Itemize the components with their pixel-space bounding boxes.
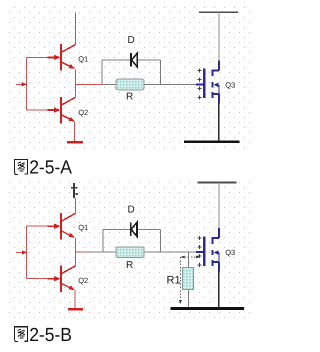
svg-text:R: R [126,260,133,271]
svg-text:Q1: Q1 [78,54,88,63]
svg-text:R1: R1 [167,275,181,287]
svg-text:Q2: Q2 [78,276,88,285]
svg-text:Q2: Q2 [78,108,88,117]
svg-text:Q3: Q3 [225,248,235,257]
svg-text:2-5-B: 2-5-B [29,325,72,346]
svg-text:D: D [128,35,135,46]
svg-text:2-5-A: 2-5-A [29,158,72,179]
svg-text:D: D [128,204,135,215]
svg-text:Q3: Q3 [225,81,235,90]
svg-text:Q1: Q1 [78,223,88,232]
svg-text:R: R [126,92,133,103]
